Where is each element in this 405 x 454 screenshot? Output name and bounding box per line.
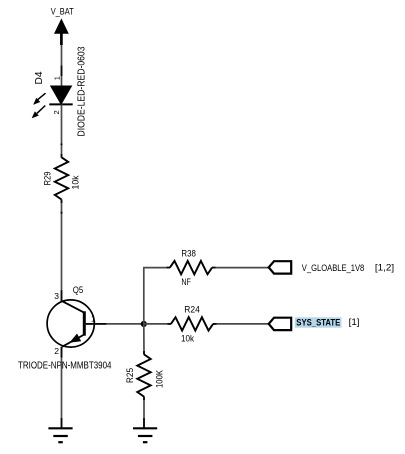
node R29 bottom connection [60,212,62,214]
wire R24 to flag [213,323,269,325]
resistor R24 [171,317,213,330]
svg-text:D4: D4 [33,71,45,84]
wire R25 to ground [143,397,145,428]
svg-text:10k: 10k [71,175,82,189]
svg-text:10k: 10k [181,334,194,345]
svg-text:SYS_STATE: SYS_STATE [296,317,340,327]
wire junction to R24 [144,323,171,325]
net flag V_GLOABLE_1V8 [269,261,292,273]
wire Q5 emitter to ground [61,347,63,428]
svg-text:R38: R38 [181,249,196,260]
svg-text:TRIODE-NPN-MMBT3904: TRIODE-NPN-MMBT3904 [18,359,112,371]
transistor Q5 [47,300,94,347]
pin stub GND left [61,418,63,428]
pin stub Q5 emitter [61,347,63,358]
svg-text:Q5: Q5 [73,285,84,296]
svg-text:1: 1 [53,76,62,80]
svg-text:V_BAT: V_BAT [51,7,74,17]
wire LED cathode to R29 [61,104,63,157]
pin stub Q5 base [84,323,106,325]
svg-text:[1,2]: [1,2] [375,263,394,273]
wire V_BAT to LED anode [61,45,63,87]
resistor R25 [137,354,150,396]
wire corner to R38 [143,267,170,269]
highlight SYS_STATE [295,317,342,327]
wire R38 to flag [212,267,269,269]
pin stub R25 bottom [143,397,145,401]
resistor R38 [170,261,212,274]
svg-text:V_GLOABLE_1V8: V_GLOABLE_1V8 [302,263,365,273]
pin stub R25 top [143,351,145,355]
pin stub Q5 collector [61,290,63,301]
pin stub R38 left [167,267,171,269]
svg-text:1: 1 [91,313,96,323]
svg-text:2: 2 [52,110,61,114]
wire R29 to Q5 collector [61,200,63,302]
power symbol V_BAT arrow [55,20,68,45]
ground symbol (left) [48,428,72,442]
wire Q5 base to junction [84,323,144,325]
pin stub D4 anode [61,66,63,77]
pin stub R24 right [213,323,217,325]
net flag SYS_STATE [269,318,292,330]
junction node [141,321,147,327]
ground symbol (right) [133,428,157,442]
LED D4 symbol [49,86,72,104]
svg-text:R29: R29 [43,172,54,186]
pin stub R38 right [212,267,216,269]
svg-text:DIODE-LED-RED-0603: DIODE-LED-RED-0603 [76,46,88,136]
svg-text:100K: 100K [155,369,166,388]
LED emission arrows [32,93,46,118]
svg-text:R25: R25 [125,368,136,383]
svg-text:2: 2 [54,346,59,356]
wire junction up to R38 row [143,268,145,324]
pin stub R29 bottom [61,199,63,203]
svg-text:R24: R24 [184,305,200,316]
pin stub GND right [143,418,145,428]
svg-text:[1]: [1] [349,317,360,327]
pin stub R29 top [61,154,63,158]
wire junction down to R25 [143,324,145,355]
pin stub R24 left [168,323,172,325]
svg-text:3: 3 [54,291,59,301]
resistor R29 [55,157,68,199]
svg-text:NF: NF [181,277,191,288]
node R29 top connection [60,143,62,145]
